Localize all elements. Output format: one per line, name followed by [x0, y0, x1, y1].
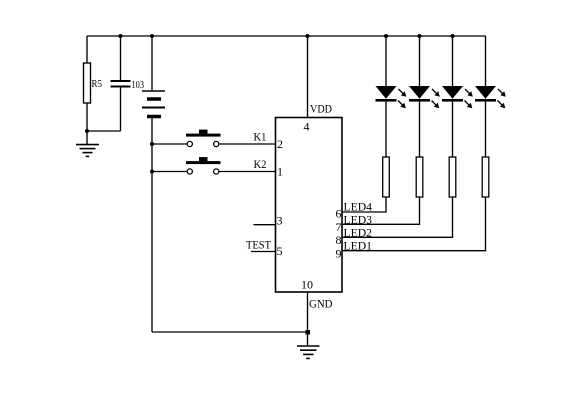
svg-text:7: 7 [336, 220, 342, 234]
LED D4 [475, 86, 496, 99]
node junction R5-C1 [85, 129, 89, 133]
wire LED3 to R3 [452, 102, 454, 157]
wire K2 left [152, 171, 187, 173]
svg-text:8: 8 [336, 233, 342, 247]
LED D1 column [376, 36, 407, 197]
wire pin 9 to R4 [342, 197, 486, 251]
node junction K2 row [150, 170, 154, 174]
wire LED4 to R4 [485, 102, 487, 157]
wire K1 right [219, 143, 275, 145]
wire bottom return [152, 331, 308, 333]
node junction LED1 col [384, 34, 388, 38]
svg-text:VDD: VDD [310, 102, 332, 116]
wire C1 bottom [120, 88, 122, 132]
wire LED4 top [485, 36, 487, 86]
svg-text:1: 1 [277, 165, 283, 179]
node junction GND [306, 330, 311, 335]
wire K2 right [219, 171, 275, 173]
wire LED2 to R2 [419, 102, 421, 157]
node junction LED3 col [451, 34, 455, 38]
svg-text:9: 9 [336, 247, 342, 261]
svg-text:6: 6 [336, 207, 342, 221]
LED D4 column [475, 36, 506, 197]
node junction battery top [150, 34, 154, 38]
capacitor C1 value 103 [111, 79, 145, 91]
ground left [76, 145, 99, 157]
wire R5 bottom [86, 103, 88, 144]
LED D2 [409, 86, 430, 99]
wire C1 to R5 [87, 130, 121, 132]
wire K1 left [152, 143, 187, 145]
svg-text:10: 10 [301, 278, 313, 292]
wire battery top [151, 36, 153, 90]
resistor R1 [383, 157, 390, 197]
wire battery bottom column [151, 118, 153, 332]
svg-text:3: 3 [277, 214, 283, 228]
svg-text:TEST: TEST [246, 238, 272, 252]
svg-text:5: 5 [277, 244, 283, 258]
wire C1 top [120, 36, 122, 80]
svg-text:2: 2 [277, 137, 283, 151]
node junction VDD [306, 34, 310, 38]
node junction cap top [119, 34, 123, 38]
wire R5 top [86, 36, 88, 63]
battery BT1 [142, 91, 165, 117]
wire pin 7 to R2 [342, 197, 420, 224]
wire pin 5 TEST stub [251, 251, 276, 253]
svg-text:K1: K1 [254, 130, 267, 144]
wire LED1 top [385, 36, 387, 86]
wire VDD pin 4 [307, 36, 309, 118]
LED D1 [376, 86, 397, 99]
node junction LED2 col [418, 34, 422, 38]
resistor R3 [449, 157, 456, 197]
svg-text:GND: GND [309, 297, 333, 311]
resistor R2 [416, 157, 423, 197]
svg-text:103: 103 [132, 79, 145, 91]
resistor R5 [84, 63, 103, 103]
LED D2 column [409, 36, 440, 197]
wire pin 6 to R1 [342, 197, 386, 212]
op-amp U1 IC body [276, 118, 343, 293]
ground bottom [297, 346, 320, 358]
switch K2 [186, 157, 267, 174]
svg-text:R5: R5 [92, 78, 103, 90]
resistor R4 [482, 157, 489, 197]
node junction K1 row [150, 142, 154, 146]
svg-text:K2: K2 [254, 157, 267, 171]
wire top power rail [87, 35, 486, 37]
wire pin 8 to R3 [342, 197, 453, 237]
wire pin 3 stub [254, 224, 276, 226]
switch K1 [186, 130, 267, 147]
wire LED2 top [419, 36, 421, 86]
LED D3 [442, 86, 463, 99]
wire LED3 top [452, 36, 454, 86]
wire LED1 to R1 [385, 102, 387, 157]
LED D3 column [442, 36, 473, 197]
wire GND pin 10 [307, 292, 309, 346]
svg-text:4: 4 [304, 120, 310, 134]
